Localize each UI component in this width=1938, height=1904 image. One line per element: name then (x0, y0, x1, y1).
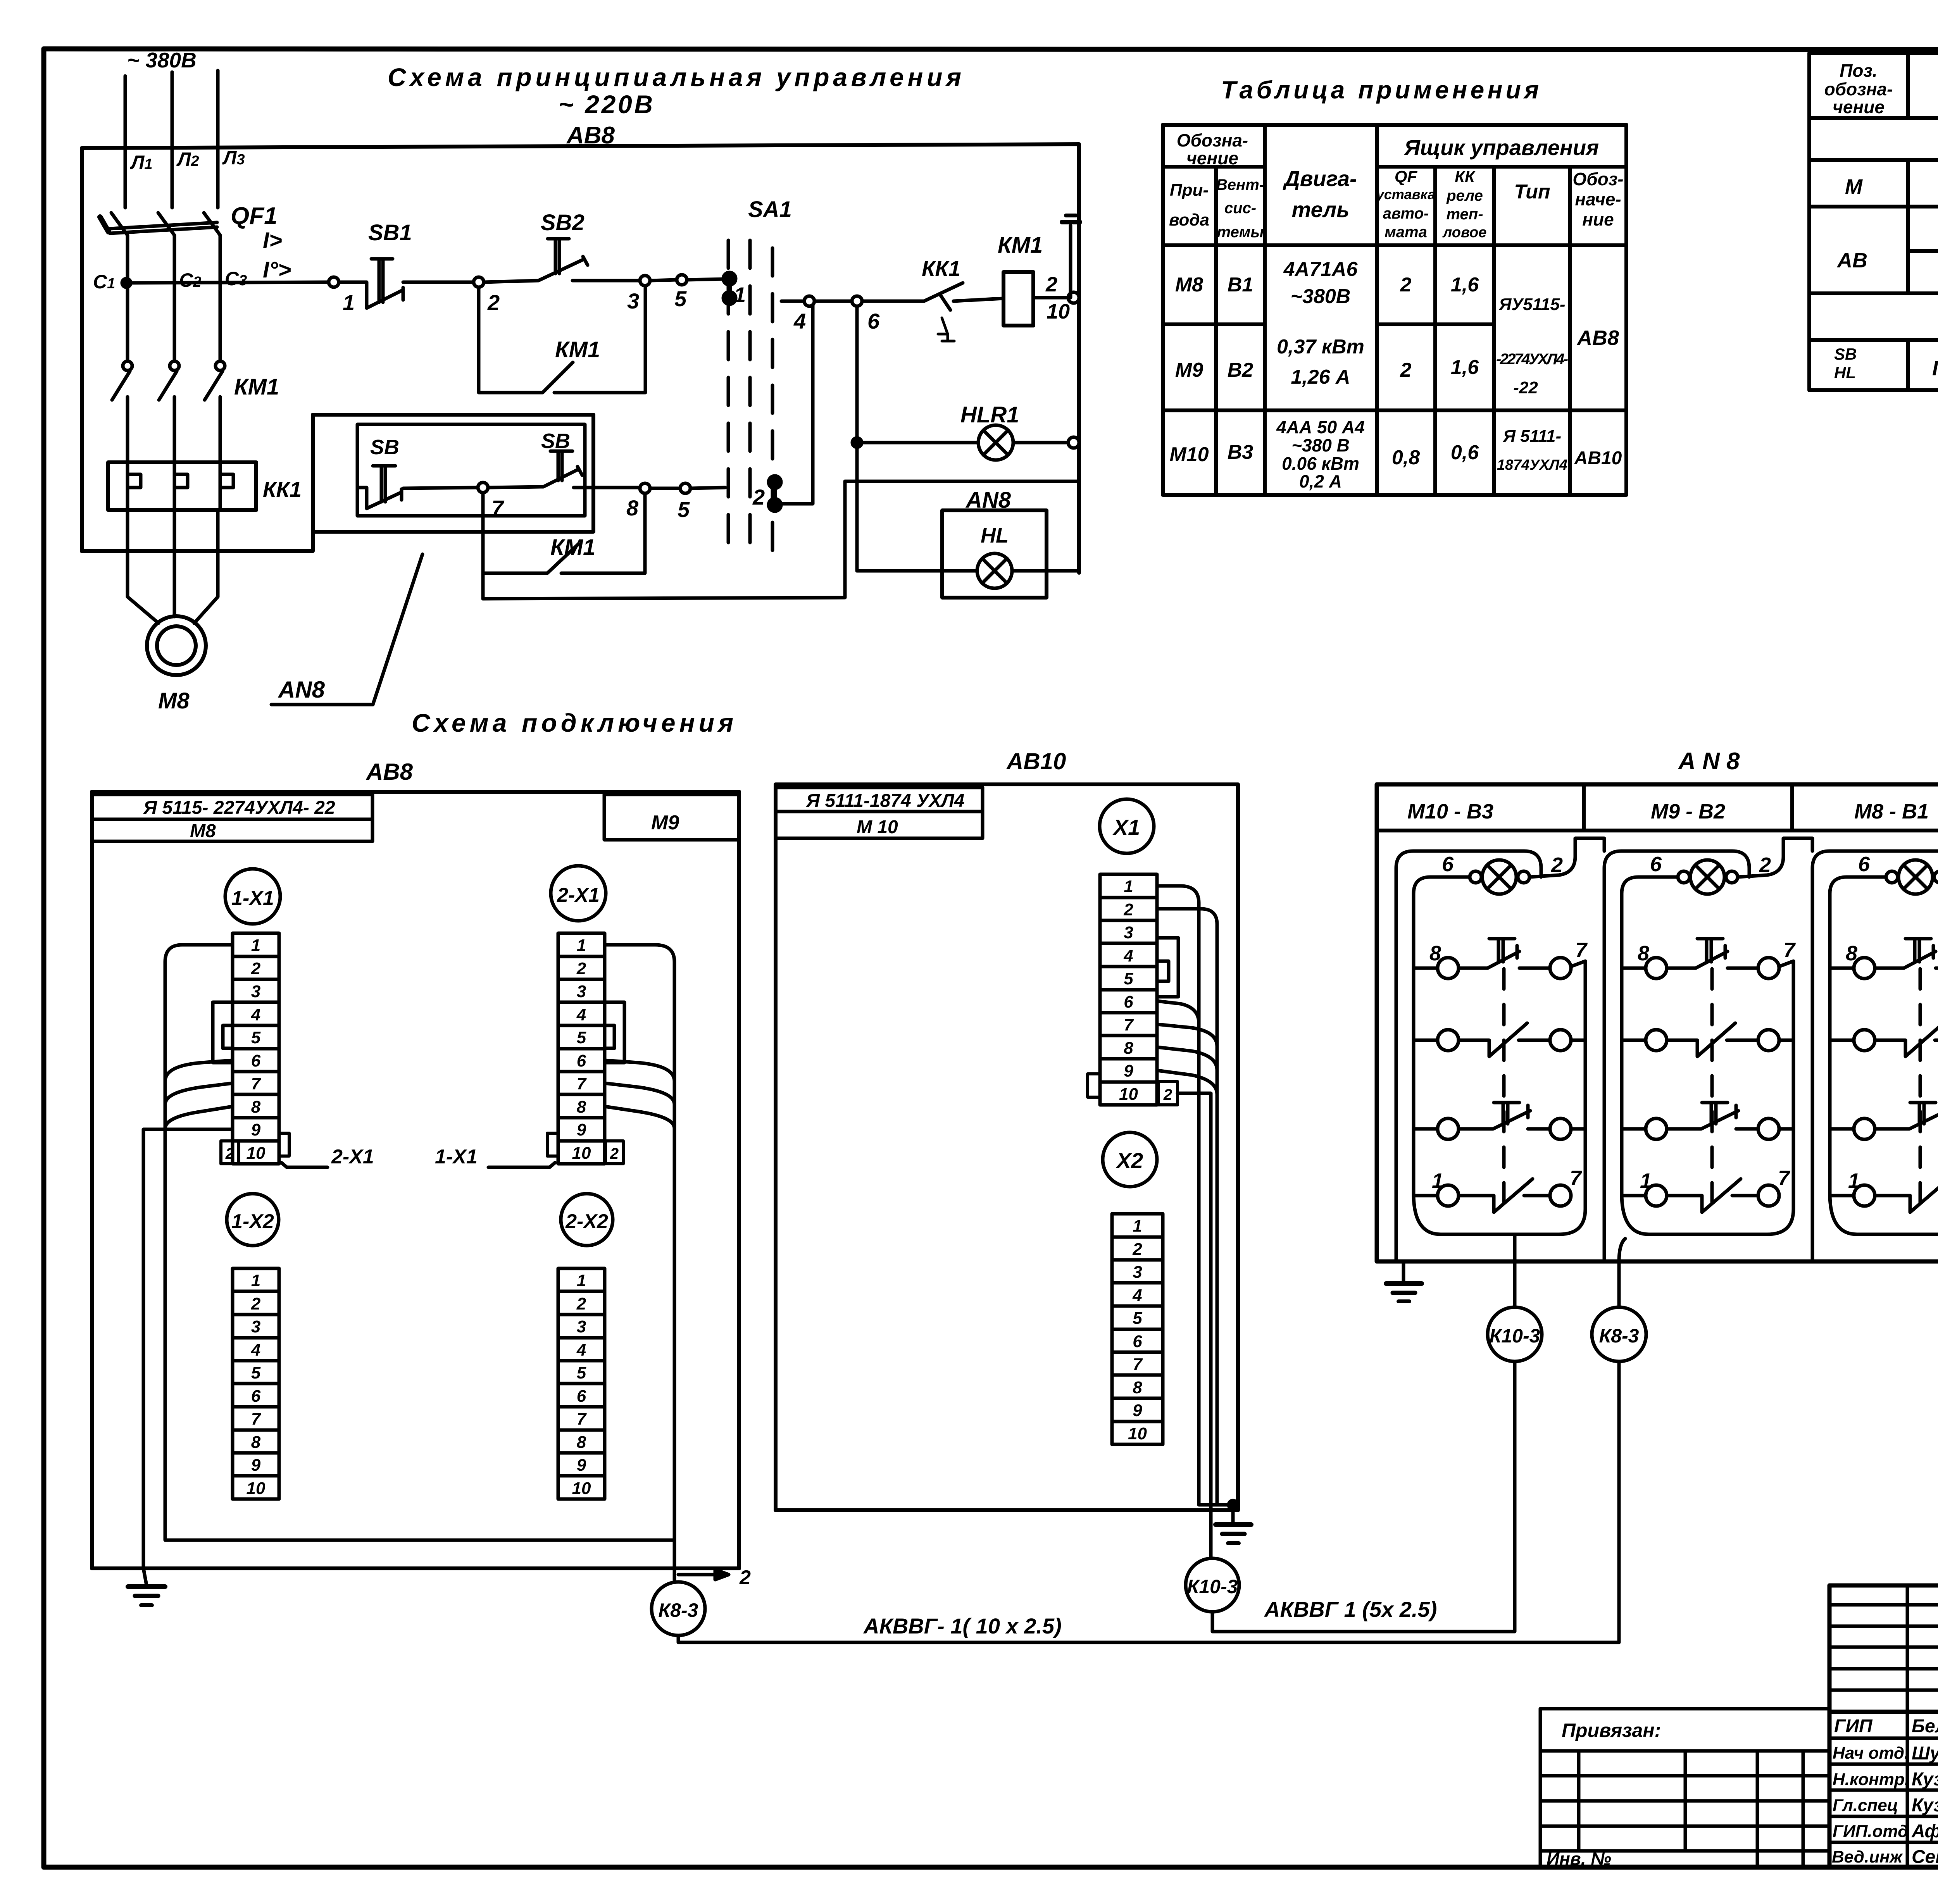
svg-text:Я 5111-1874 УХЛ4: Я 5111-1874 УХЛ4 (805, 791, 964, 811)
svg-text:7: 7 (491, 496, 505, 520)
wire to motor (128, 510, 159, 623)
svg-text:HLR1: HLR1 (960, 402, 1019, 427)
terminal strip 1-X2 (233, 1268, 279, 1499)
svg-text:При-: При- (1170, 181, 1209, 200)
svg-text:2: 2 (1045, 273, 1057, 296)
connector label X1 (1100, 799, 1154, 853)
svg-text:К8-3: К8-3 (658, 1599, 698, 1621)
svg-text:7: 7 (1778, 1167, 1791, 1190)
svg-text:М 10: М 10 (857, 817, 898, 837)
svg-text:SB1: SB1 (368, 220, 412, 245)
terminal strip 2-X1 (558, 933, 605, 1164)
svg-text:SB: SB (370, 436, 399, 459)
svg-text:10: 10 (247, 1144, 266, 1163)
svg-text:2: 2 (576, 1294, 586, 1313)
svg-text:авто-: авто- (1383, 205, 1429, 222)
svg-text:А N 8: А N 8 (1678, 748, 1740, 775)
svg-text:6: 6 (577, 1051, 586, 1070)
svg-text:3: 3 (251, 1317, 260, 1336)
svg-text:4: 4 (251, 1005, 260, 1024)
svg-text:2: 2 (1400, 359, 1412, 381)
svg-text:10: 10 (572, 1144, 591, 1163)
svg-text:1,6: 1,6 (1451, 274, 1479, 296)
svg-text:10: 10 (1119, 1085, 1138, 1104)
contact row 2 М8-В1 (1830, 1039, 1854, 1042)
svg-text:АВ10: АВ10 (1574, 448, 1622, 469)
svg-text:1: 1 (343, 290, 355, 315)
svg-text:К8-3: К8-3 (1599, 1325, 1639, 1347)
terminal strip X1 (АВ10) (1100, 874, 1157, 1105)
svg-text:чение: чение (1186, 148, 1238, 168)
svg-text:Белоус: Белоус (1912, 1716, 1938, 1737)
svg-text:вода: вода (1169, 210, 1209, 229)
wire row after SA1 (781, 300, 804, 303)
svg-text:М: М (1845, 175, 1863, 198)
SA1 contact position 2 (769, 476, 781, 488)
svg-text:4: 4 (1123, 946, 1133, 965)
svg-text:Шунский: Шунский (1912, 1743, 1938, 1764)
svg-text:КК1: КК1 (263, 477, 302, 501)
svg-text:4: 4 (251, 1341, 260, 1360)
svg-text:7: 7 (577, 1409, 587, 1428)
svg-text:10: 10 (1128, 1424, 1147, 1443)
contact row 3 М8-В1 (1830, 1127, 1854, 1131)
wire lamp to rail (1830, 877, 1886, 1194)
svg-text:Тип: Тип (1514, 181, 1550, 203)
svg-text:1: 1 (577, 936, 586, 955)
node 1 (329, 277, 339, 287)
svg-text:Схема подключения: Схема подключения (412, 708, 733, 737)
wire lamp 2 to bus (1738, 838, 1812, 877)
svg-text:2: 2 (576, 959, 586, 978)
svg-text:темы: темы (1217, 224, 1264, 241)
svg-text:1: 1 (1133, 1216, 1142, 1235)
svg-text:М8: М8 (1175, 274, 1203, 296)
motor M8 (147, 616, 206, 675)
svg-text:Н.контр.: Н.контр. (1833, 1770, 1909, 1789)
cable circle K8-3 (АН8 side) (1592, 1307, 1646, 1361)
terminal strip X2 (АВ10) (1112, 1214, 1163, 1444)
node 7 (478, 482, 488, 493)
svg-text:5: 5 (251, 1028, 261, 1047)
tab 2 (X1) (1158, 1082, 1178, 1105)
svg-text:сис-: сис- (1224, 200, 1256, 217)
svg-text:9: 9 (577, 1120, 586, 1139)
ground (АВ10) (1231, 1505, 1235, 1523)
svg-text:М8: М8 (158, 688, 190, 713)
svg-text:В3: В3 (1228, 441, 1253, 464)
header type label (92, 794, 372, 819)
terminal strip 2-X2 (558, 1268, 605, 1499)
svg-text:Двига-: Двига- (1283, 166, 1357, 191)
contact row 3 М10-В3 (1414, 1127, 1437, 1131)
node 3 (640, 276, 650, 286)
tab 2 (2-X1) (605, 1141, 623, 1164)
cable АКВВГ-1(10х2.5) (678, 1361, 1619, 1642)
bottom loop М8-В1 (1830, 1194, 1938, 1234)
node 5 (lower) (680, 483, 690, 493)
svg-text:чение: чение (1833, 97, 1885, 117)
wires 2-X1 (605, 945, 674, 1581)
svg-text:мата: мата (1385, 224, 1427, 241)
svg-text:АКВВГ 1 (5х 2.5): АКВВГ 1 (5х 2.5) (1264, 1597, 1437, 1621)
SA1 contact position 1 (723, 272, 736, 285)
svg-text:2: 2 (251, 1294, 261, 1313)
lamp HL (857, 569, 977, 573)
svg-text:КК: КК (1455, 167, 1476, 186)
svg-text:ГИП.отд: ГИП.отд (1833, 1822, 1908, 1841)
svg-text:Инв. №: Инв. № (1547, 1849, 1611, 1869)
svg-text:9: 9 (1133, 1401, 1142, 1420)
connector label 1-X1 (225, 869, 280, 924)
wires X1 (1157, 886, 1233, 1505)
svg-text:АВ8: АВ8 (1576, 326, 1619, 350)
svg-text:М8: М8 (190, 821, 216, 841)
contact row 2 М10-В3 (1414, 1039, 1437, 1042)
svg-text:~ 380В: ~ 380В (127, 48, 197, 72)
svg-text:К10-3: К10-3 (1490, 1325, 1540, 1347)
cable circle K8-3 (652, 1582, 705, 1635)
svg-text:Таблица применения: Таблица применения (1221, 76, 1539, 104)
svg-text:1: 1 (577, 1271, 586, 1290)
box АВ10 (776, 784, 1238, 1510)
svg-text:4: 4 (576, 1005, 586, 1024)
svg-text:5: 5 (577, 1363, 586, 1382)
svg-text:QF: QF (1395, 167, 1418, 186)
svg-text:1,6: 1,6 (1451, 356, 1479, 379)
bottom loop М10-В3 (1414, 1194, 1585, 1234)
svg-text:Нач отд.: Нач отд. (1833, 1744, 1909, 1763)
cable АКВВГ 1(5х2.5) (1212, 1361, 1515, 1632)
svg-text:8: 8 (251, 1433, 261, 1452)
node 2 (474, 277, 484, 287)
svg-text:6: 6 (577, 1387, 586, 1406)
svg-text:Обозна-: Обозна- (1177, 130, 1248, 150)
connector label 2-X1 (551, 866, 606, 921)
svg-text:тель: тель (1292, 197, 1350, 222)
svg-text:АКВВГ- 1( 10 х 2.5): АКВВГ- 1( 10 х 2.5) (863, 1614, 1062, 1638)
svg-text:0,2 А: 0,2 А (1299, 471, 1342, 491)
leader 1-X1 (488, 1163, 555, 1167)
wire node7 to HL loop (481, 573, 485, 599)
box АН8 (1377, 784, 1938, 1261)
svg-text:0,8: 0,8 (1392, 446, 1420, 469)
lamp М8-В1 (1812, 851, 1938, 1260)
svg-text:теп-: теп- (1446, 206, 1483, 223)
connector label 2-X2 (561, 1194, 613, 1246)
svg-text:2-Х1: 2-Х1 (557, 884, 600, 906)
svg-text:7: 7 (1575, 939, 1588, 962)
svg-text:3: 3 (577, 1317, 586, 1336)
enclosure box АВ8 (82, 144, 1079, 573)
svg-text:8: 8 (1133, 1378, 1142, 1397)
cable circle K10-3 (1186, 1558, 1239, 1612)
bottom loop М9-В2 (1622, 1194, 1793, 1234)
svg-text:КК1: КК1 (922, 256, 960, 281)
svg-text:7: 7 (1124, 1015, 1134, 1034)
svg-text:2: 2 (1400, 274, 1412, 296)
svg-text:Я 5115- 2274УХЛ4- 22: Я 5115- 2274УХЛ4- 22 (143, 798, 335, 818)
svg-text:реле: реле (1446, 187, 1483, 204)
wire HL return (845, 480, 1079, 483)
svg-text:М9: М9 (651, 812, 679, 834)
svg-text:7: 7 (1783, 939, 1796, 962)
svg-text:6: 6 (1858, 853, 1870, 876)
svg-text:3: 3 (627, 289, 639, 313)
svg-text:3: 3 (577, 982, 586, 1001)
svg-text:Афонина: Афонина (1911, 1821, 1938, 1842)
svg-text:8: 8 (577, 1433, 586, 1452)
svg-text:КМ1: КМ1 (998, 233, 1043, 258)
svg-text:2: 2 (610, 1145, 619, 1162)
svg-text:1: 1 (251, 936, 260, 955)
svg-text:2: 2 (1123, 900, 1133, 919)
svg-text:5: 5 (577, 1028, 586, 1047)
svg-text:3: 3 (1124, 923, 1133, 942)
thermal relay KK1 heaters (108, 462, 256, 510)
node 5 (677, 275, 687, 285)
node 6 (852, 296, 862, 306)
svg-text:6: 6 (1133, 1332, 1142, 1351)
svg-text:2-Х1: 2-Х1 (331, 1146, 374, 1168)
svg-text:Семашко: Семашко (1912, 1847, 1938, 1867)
svg-text:6: 6 (1650, 853, 1662, 876)
svg-text:5: 5 (251, 1363, 261, 1382)
svg-text:QF1: QF1 (231, 203, 278, 229)
svg-text:1-Х1: 1-Х1 (435, 1146, 478, 1168)
svg-text:SA1: SA1 (748, 197, 792, 222)
svg-text:10: 10 (247, 1479, 266, 1498)
title block (1540, 1582, 1938, 1867)
box АВ8 (92, 792, 739, 1568)
svg-text:Обоз-: Обоз- (1572, 169, 1623, 189)
wire to K10-3 (1178, 1093, 1211, 1558)
application table frame (1163, 125, 1626, 495)
svg-text:2: 2 (1163, 1086, 1172, 1103)
svg-text:7: 7 (251, 1074, 262, 1093)
svg-text:4А71А6: 4А71А6 (1283, 258, 1358, 281)
svg-text:АВ10: АВ10 (1006, 748, 1066, 774)
cable circle K10-3 (АН8 side) (1488, 1307, 1542, 1361)
svg-text:Привязан:: Привязан: (1562, 1720, 1661, 1741)
svg-text:обозна-: обозна- (1824, 79, 1893, 99)
svg-text:-2274УХЛ4-: -2274УХЛ4- (1496, 351, 1568, 368)
lamp М10-В3 (1396, 851, 1541, 1260)
svg-text:2: 2 (487, 290, 500, 315)
svg-text:ЯУ5115-: ЯУ5115- (1498, 295, 1565, 314)
terminal strip 1-X1 (233, 933, 279, 1164)
lamp М9-В2 (1604, 851, 1749, 1260)
svg-text:Вед.инж: Вед.инж (1832, 1847, 1904, 1866)
svg-text:1874УХЛ4: 1874УХЛ4 (1497, 457, 1567, 473)
svg-text:6: 6 (1124, 992, 1133, 1011)
svg-text:SB: SB (1834, 345, 1857, 363)
svg-text:1,26 А: 1,26 А (1291, 366, 1350, 388)
svg-text:АN8: АN8 (278, 677, 325, 703)
arrow to sheet 2 (678, 1573, 729, 1577)
node 8 (640, 483, 650, 493)
svg-text:10: 10 (1047, 300, 1070, 323)
svg-text:3: 3 (251, 982, 260, 1001)
leader 2-X1 (281, 1163, 328, 1167)
node at right rail (1068, 292, 1079, 303)
svg-text:-22: -22 (1513, 378, 1538, 397)
wire lamp 2 to bus (1529, 838, 1604, 877)
svg-text:2: 2 (739, 1566, 751, 1589)
svg-text:8: 8 (626, 496, 639, 520)
svg-text:2: 2 (251, 959, 261, 978)
control tap node C1 (122, 279, 131, 287)
svg-text:6: 6 (251, 1387, 261, 1406)
svg-text:SB2: SB2 (541, 210, 585, 235)
svg-text:I°>: I°> (263, 257, 291, 283)
svg-text:~380 В: ~380 В (1291, 435, 1350, 455)
svg-text:6: 6 (1442, 853, 1454, 876)
svg-text:М10: М10 (1169, 443, 1209, 466)
svg-text:6: 6 (867, 309, 880, 333)
svg-text:АВ8: АВ8 (366, 759, 413, 785)
svg-text:0.06 кВт: 0.06 кВт (1282, 453, 1359, 474)
svg-text:HL: HL (981, 524, 1009, 547)
svg-text:ловое: ловое (1442, 224, 1487, 241)
svg-text:2-Х2: 2-Х2 (565, 1210, 608, 1233)
svg-text:4: 4 (793, 309, 806, 333)
svg-text:Вент-: Вент- (1216, 176, 1264, 193)
svg-text:КМ1: КМ1 (555, 337, 600, 362)
svg-text:5: 5 (674, 286, 687, 311)
svg-text:ГИП: ГИП (1834, 1716, 1873, 1737)
svg-text:В1: В1 (1228, 274, 1253, 296)
wire control bus (126, 282, 329, 283)
wires 1-X1 (165, 945, 674, 1540)
wire phase L1 (124, 76, 127, 208)
parts list table (1809, 53, 1938, 390)
svg-text:наче-: наче- (1575, 189, 1621, 209)
svg-text:Кузнецов: Кузнецов (1912, 1795, 1938, 1816)
svg-text:М9: М9 (1175, 359, 1203, 381)
svg-text:М10 - В3: М10 - В3 (1407, 800, 1493, 823)
svg-text:7: 7 (251, 1409, 262, 1428)
svg-text:1: 1 (1124, 877, 1133, 896)
svg-text:5: 5 (1124, 969, 1133, 988)
svg-text:уставка: уставка (1376, 186, 1436, 202)
svg-text:2: 2 (1132, 1240, 1142, 1259)
svg-text:4: 4 (1132, 1286, 1142, 1305)
svg-text:I>: I> (263, 228, 282, 253)
svg-text:~380В: ~380В (1291, 285, 1351, 308)
node 4 (804, 296, 814, 306)
svg-text:4АА 50 А4: 4АА 50 А4 (1276, 417, 1365, 437)
svg-text:7: 7 (577, 1074, 587, 1093)
svg-text:5: 5 (1133, 1309, 1142, 1328)
wire right rail (1078, 303, 1081, 573)
ground (АВ8) (143, 1568, 147, 1585)
svg-text:8: 8 (1124, 1039, 1133, 1058)
svg-text:9: 9 (1124, 1061, 1133, 1080)
svg-text:9: 9 (577, 1456, 586, 1475)
ground (АН8) (1396, 1217, 1403, 1282)
svg-text:Х1: Х1 (1112, 815, 1140, 839)
tab 2 (1-X1) (221, 1141, 239, 1164)
wire phase L2 (171, 72, 174, 208)
svg-text:Поз.: Поз. (1840, 60, 1877, 81)
svg-text:5: 5 (678, 497, 690, 522)
svg-text:ние: ние (1582, 209, 1614, 229)
svg-text:~ 220В: ~ 220В (559, 90, 653, 119)
svg-text:SB: SB (541, 429, 570, 453)
svg-text:7: 7 (1570, 1167, 1583, 1190)
svg-text:3: 3 (1133, 1263, 1142, 1282)
svg-text:1: 1 (251, 1271, 260, 1290)
header M9 (604, 794, 739, 840)
svg-text:8: 8 (577, 1098, 586, 1117)
svg-text:Я 5111-: Я 5111- (1503, 427, 1561, 446)
svg-text:HL: HL (1834, 364, 1856, 382)
svg-text:0,37 кВт: 0,37 кВт (1277, 336, 1364, 358)
wire lamp to rail (1622, 877, 1678, 1194)
svg-text:6: 6 (251, 1051, 261, 1070)
svg-text:Х2: Х2 (1116, 1148, 1143, 1173)
svg-text:В2: В2 (1228, 359, 1253, 381)
svg-text:М8 - В1: М8 - В1 (1854, 800, 1929, 823)
svg-text:8: 8 (251, 1098, 261, 1117)
svg-text:1-Х1: 1-Х1 (231, 887, 274, 910)
svg-text:1-Х2: 1-Х2 (231, 1210, 274, 1233)
svg-text:9: 9 (251, 1456, 261, 1475)
svg-text:10: 10 (572, 1479, 591, 1498)
svg-text:К10-3: К10-3 (1187, 1576, 1238, 1597)
ground (top right) (1069, 226, 1072, 298)
svg-text:7: 7 (1133, 1355, 1143, 1374)
svg-text:9: 9 (251, 1120, 261, 1139)
svg-text:М9 - В2: М9 - В2 (1651, 800, 1725, 823)
svg-text:Ящик управления: Ящик управления (1403, 135, 1599, 160)
wire lamp to rail (1414, 877, 1470, 1194)
connector label 1-X2 (227, 1194, 279, 1246)
svg-text:Кузнецов: Кузнецов (1912, 1769, 1938, 1790)
svg-text:Схема принципиальная управле: Схема принципиальная управления (388, 63, 961, 91)
connector label X2 (1103, 1132, 1157, 1187)
svg-text:2: 2 (225, 1145, 234, 1162)
svg-text:Гл.спец: Гл.спец (1833, 1796, 1898, 1815)
svg-text:Пост кнопочный ПКУ15 - 21.: Пост кнопочный ПКУ15 - 21.331.40У3 (1932, 357, 1938, 380)
svg-text:2: 2 (752, 485, 765, 509)
svg-text:0,6: 0,6 (1451, 441, 1479, 464)
svg-text:КМ1: КМ1 (234, 374, 279, 400)
local buttons box AN8 (double border) (313, 415, 593, 532)
contact row 2 М9-В2 (1622, 1039, 1645, 1042)
svg-text:АВ: АВ (1836, 249, 1867, 272)
contact row 3 М9-В2 (1622, 1127, 1645, 1131)
svg-text:1: 1 (734, 283, 746, 307)
svg-text:4: 4 (576, 1341, 586, 1360)
wire SA1-2 riser (781, 301, 813, 504)
wire phase L3 (216, 71, 220, 208)
